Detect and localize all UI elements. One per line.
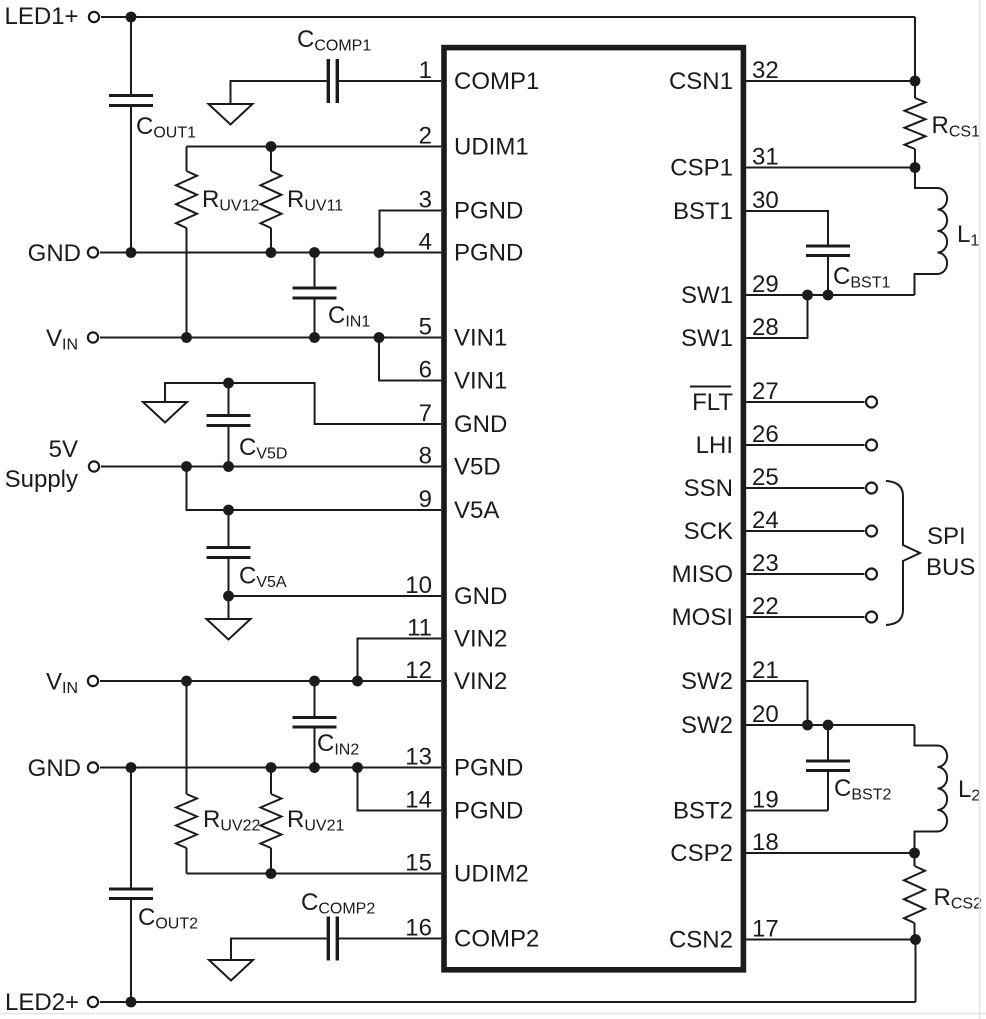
wire pin FLT stub	[746, 401, 865, 403]
node GND/RUV11	[266, 247, 277, 258]
svg-text:SW1: SW1	[681, 282, 733, 309]
svg-text:GND: GND	[28, 755, 81, 782]
svg-text:SW2: SW2	[681, 712, 733, 739]
wire pin 7 GND branch	[165, 383, 441, 424]
svg-text:Supply: Supply	[5, 466, 78, 493]
node GND2/COUT2	[126, 762, 137, 773]
svg-text:21: 21	[752, 657, 779, 684]
svg-text:22: 22	[752, 593, 779, 620]
ground at CCOMP1	[209, 104, 253, 125]
open terminal LHI	[866, 440, 877, 451]
svg-text:CSP1: CSP1	[670, 155, 733, 182]
svg-text:19: 19	[752, 787, 779, 814]
resistor RUV22	[176, 681, 260, 874]
svg-text:MOSI: MOSI	[672, 604, 733, 631]
node SW2/pin21	[802, 720, 813, 731]
svg-text:UDIM1: UDIM1	[454, 134, 529, 161]
wire pin 15 UDIM2 row	[187, 873, 442, 875]
node VIN/RUV12	[181, 332, 192, 343]
svg-text:6: 6	[419, 357, 432, 384]
pin 19 BST2 (right)	[673, 787, 779, 825]
svg-text:5V: 5V	[49, 436, 78, 463]
svg-text:COMP2: COMP2	[454, 926, 539, 953]
node GND2/RUV21	[266, 762, 277, 773]
svg-text:5: 5	[419, 314, 432, 341]
node GND7/CV5D	[223, 378, 234, 389]
wire pin 11 VIN2 branch	[358, 639, 442, 682]
resistor RUV11	[261, 147, 344, 253]
capacitor CV5D	[207, 383, 288, 467]
svg-text:VIN1: VIN1	[454, 368, 507, 395]
open terminal SSN	[866, 483, 877, 494]
pin 17 CSN2 (right)	[669, 916, 779, 954]
node 5V/CV5D	[223, 461, 234, 472]
svg-text:MISO: MISO	[672, 561, 733, 588]
svg-text:4: 4	[419, 229, 432, 256]
wire pin 32 CSN1 row	[746, 80, 915, 82]
svg-text:26: 26	[752, 421, 779, 448]
node SW1/pin28	[802, 290, 813, 301]
svg-text:2: 2	[419, 123, 432, 150]
svg-text:12: 12	[405, 657, 432, 684]
svg-text:9: 9	[419, 486, 432, 513]
svg-text:25: 25	[752, 464, 779, 491]
terminal VIN (upper)	[46, 325, 98, 354]
node CSN1/RCS1	[910, 76, 921, 87]
svg-text:24: 24	[752, 507, 779, 534]
open terminal SCK	[866, 526, 877, 537]
wire pin 9 V5A branch	[187, 467, 442, 511]
svg-text:PGND: PGND	[454, 198, 523, 225]
node 5V/pin9 branch	[181, 461, 192, 472]
ground at CCOMP2	[209, 960, 253, 981]
wire VIN row 1 to pin 5	[100, 337, 441, 339]
pin 3 PGND (left)	[419, 187, 524, 225]
pin 32 CSN1 (right)	[669, 57, 779, 95]
svg-text:V5D: V5D	[454, 454, 501, 481]
pin 25 SSN (right)	[684, 464, 779, 502]
svg-text:SW2: SW2	[681, 668, 733, 695]
svg-text:COMP1: COMP1	[454, 68, 539, 95]
wire UDIM1 pin 2 row	[187, 146, 442, 148]
pin 22 MOSI (right)	[672, 593, 779, 631]
svg-text:SW1: SW1	[681, 325, 733, 352]
open terminal MISO	[866, 569, 877, 580]
node VIN2/RUV22	[181, 676, 192, 687]
svg-text:SPI: SPI	[927, 523, 966, 550]
pin 6 VIN1 (left)	[419, 357, 508, 395]
node GND10/CV5A	[223, 591, 234, 602]
svg-text:PGND: PGND	[454, 798, 523, 825]
svg-text:LED1+: LED1+	[5, 3, 79, 30]
svg-text:SCK: SCK	[684, 518, 733, 545]
svg-text:LED2+: LED2+	[5, 989, 79, 1016]
pin 5 VIN1 (left)	[419, 314, 508, 352]
svg-text:VIN1: VIN1	[454, 325, 507, 352]
pin 11 VIN2 (left)	[407, 615, 507, 653]
capacitor CIN1	[293, 253, 371, 338]
node GND/COUT1	[126, 247, 137, 258]
pin 13 PGND (left)	[405, 744, 523, 782]
node VIN2/CIN2	[309, 676, 320, 687]
pin 28 SW1 (right)	[681, 314, 779, 352]
node GND/CIN1	[309, 247, 320, 258]
pin 27 FLT (right)	[690, 378, 779, 416]
node LED2+/COUT2	[126, 997, 137, 1008]
svg-text:27: 27	[752, 378, 779, 405]
capacitor COUT1	[109, 17, 196, 253]
wire LED2+ bottom rail	[100, 1001, 916, 1003]
node SW1/CBST1	[823, 290, 834, 301]
pin 14 PGND (left)	[405, 787, 523, 825]
svg-text:UDIM2: UDIM2	[454, 861, 529, 888]
svg-text:VIN2: VIN2	[454, 668, 507, 695]
pin 24 SCK (right)	[684, 507, 779, 545]
svg-text:8: 8	[419, 443, 432, 470]
node CSN2/RCS2	[910, 934, 921, 945]
svg-text:LHI: LHI	[696, 432, 733, 459]
wire pin 17 CSN2 row	[746, 939, 916, 941]
wire pin MISO stub	[746, 573, 865, 575]
pin 21 SW2 (right)	[681, 657, 779, 695]
wire pin 29 SW1 row	[746, 294, 915, 296]
pin 31 CSP1 (right)	[670, 144, 778, 182]
svg-text:13: 13	[405, 744, 432, 771]
svg-text:28: 28	[752, 314, 779, 341]
svg-text:7: 7	[419, 400, 432, 427]
terminal LED2+	[5, 989, 98, 1016]
node UDIM2/RUV21	[266, 868, 277, 879]
capacitor CBST1	[746, 211, 890, 295]
page edge lines	[979, 0, 981, 1019]
node CSP1/RCS1/L1	[910, 162, 921, 173]
wire GND row 1 to pin 4	[100, 252, 441, 254]
pin 12 VIN2 (left)	[405, 657, 507, 695]
svg-text:1: 1	[419, 57, 432, 84]
resistor RUV21	[261, 768, 345, 874]
capacitor CBST2	[746, 725, 891, 811]
pin 2 UDIM1 (left)	[419, 123, 529, 161]
svg-text:PGND: PGND	[454, 755, 523, 782]
terminal GND (upper)	[28, 240, 98, 267]
wire VIN row 2 to pin 12	[100, 680, 441, 682]
node GND/pin3	[374, 247, 385, 258]
svg-text:GND: GND	[28, 240, 81, 267]
pin 29 SW1 (right)	[681, 271, 779, 309]
svg-text:FLT: FLT	[692, 389, 733, 416]
wire pin LHI stub	[746, 444, 865, 446]
pin 23 MISO (right)	[672, 550, 779, 588]
wire pin 28 SW1 branch	[746, 295, 808, 338]
svg-text:CSP2: CSP2	[670, 840, 733, 867]
svg-text:BST2: BST2	[673, 798, 733, 825]
capacitor CCOMP1 (pin 1 network)	[231, 26, 442, 104]
capacitor CV5A	[207, 510, 287, 596]
resistor RUV12	[176, 147, 259, 338]
node VIN/pin6	[374, 332, 385, 343]
terminal 5V Supply	[5, 436, 99, 493]
ground at pin 10	[207, 619, 251, 640]
wire GND row 2 to pin 13	[100, 767, 441, 769]
open terminal MOSI	[866, 612, 877, 623]
svg-text:10: 10	[405, 572, 432, 599]
pin 4 PGND (left)	[419, 229, 524, 267]
terminal GND (lower)	[28, 755, 98, 782]
svg-text:14: 14	[405, 787, 432, 814]
node SW2/CBST2	[823, 720, 834, 731]
ground at pin 7	[143, 402, 187, 423]
svg-text:3: 3	[419, 187, 432, 214]
wire pin SSN stub	[746, 487, 865, 489]
svg-text:CSN1: CSN1	[669, 68, 733, 95]
svg-text:V5A: V5A	[454, 497, 499, 524]
pin 26 LHI (right)	[696, 421, 779, 459]
pin 1 COMP1 (left)	[419, 57, 540, 95]
wire right column down to CSN1	[914, 17, 916, 81]
svg-text:GND: GND	[454, 411, 507, 438]
pin 18 CSP2 (right)	[670, 829, 778, 867]
wire LED1+ top rail to right column	[101, 16, 915, 18]
wire pin 21 SW2 branch	[746, 681, 808, 725]
node UDIM1 / RUV11 junction	[266, 141, 277, 152]
svg-text:VIN2: VIN2	[454, 626, 507, 653]
wire pin 3 PGND branch	[380, 211, 442, 253]
svg-text:20: 20	[752, 701, 779, 728]
capacitor CCOMP2 (pin 16 network)	[231, 889, 441, 961]
node VIN2/pin11	[352, 676, 363, 687]
wire right column CSN2 down to LED2+ rail	[915, 940, 917, 1003]
pin 7 GND (left)	[419, 400, 508, 438]
wire 5V row to pin 8 V5D	[101, 466, 441, 468]
wire pin 31 CSP1 row	[746, 167, 915, 169]
inductor L1	[915, 168, 980, 296]
svg-text:30: 30	[752, 187, 779, 214]
svg-text:29: 29	[752, 271, 779, 298]
svg-text:GND: GND	[454, 583, 507, 610]
node VIN/CIN1	[309, 332, 320, 343]
wire pin 20 SW2 row	[746, 724, 915, 726]
wire pin 6 VIN1 branch	[379, 338, 441, 381]
svg-text:32: 32	[752, 57, 779, 84]
svg-text:CSN2: CSN2	[669, 927, 733, 954]
SPI BUS brace	[886, 481, 975, 625]
pin 10 GND (left)	[405, 572, 507, 610]
node junction LED1+ / COUT1	[126, 12, 137, 23]
pin 15 UDIM2 (left)	[405, 850, 528, 888]
resistor RCS1	[905, 81, 981, 168]
capacitor COUT2	[109, 768, 198, 1003]
pin 9 V5A (left)	[419, 486, 500, 524]
terminal LED1+	[5, 3, 100, 30]
pin 8 V5D (left)	[419, 443, 501, 481]
svg-text:SSN: SSN	[684, 475, 733, 502]
svg-text:23: 23	[752, 550, 779, 577]
svg-text:16: 16	[405, 915, 432, 942]
svg-text:31: 31	[752, 144, 779, 171]
svg-text:PGND: PGND	[454, 240, 523, 267]
wire pin 10 GND	[229, 596, 442, 619]
terminal VIN (lower)	[46, 669, 98, 698]
node V5A/CV5A	[223, 505, 234, 516]
node CSP2/L2/RCS2	[909, 848, 920, 859]
svg-text:BUS: BUS	[926, 554, 975, 581]
wire pin 18 CSP2 row	[746, 852, 915, 854]
resistor RCS2	[904, 853, 982, 940]
svg-text:11: 11	[407, 615, 432, 642]
node GND2/pin14	[352, 762, 363, 773]
wire pin SCK stub	[746, 530, 865, 532]
IC U1 body	[444, 48, 743, 970]
svg-text:18: 18	[752, 829, 779, 856]
svg-text:15: 15	[405, 850, 432, 877]
node GND2/CIN2	[309, 762, 320, 773]
wire pin MOSI stub	[746, 616, 865, 618]
svg-text:17: 17	[752, 916, 779, 943]
inductor L2	[915, 725, 981, 853]
svg-text:BST1: BST1	[673, 198, 733, 225]
pin 16 COMP2 (left)	[405, 915, 539, 953]
pin 20 SW2 (right)	[681, 701, 779, 739]
open terminal FLT	[866, 397, 877, 408]
pin 30 BST1 (right)	[673, 187, 779, 225]
wire pin 14 PGND branch	[358, 768, 442, 811]
capacitor CIN2	[293, 681, 360, 768]
